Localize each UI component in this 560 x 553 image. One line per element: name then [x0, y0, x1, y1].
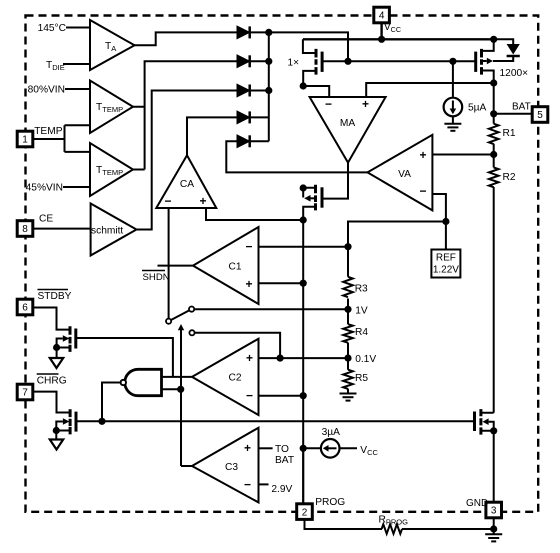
comparator C3 — [192, 428, 259, 503]
ground at R5 — [340, 394, 357, 401]
junction M5 source bulk — [53, 427, 60, 434]
junction diode bus row3 — [265, 87, 272, 94]
resistor R2 — [489, 155, 499, 413]
transistor M4 STDBY NMOS — [57, 326, 76, 358]
svg-text:4: 4 — [379, 11, 385, 22]
wire 145C input stub — [66, 27, 90, 29]
overline CHRG — [37, 373, 59, 375]
wire schmitt output to diode D3 — [137, 91, 238, 230]
wire main PROG vertical line — [302, 220, 304, 504]
svg-text:CE: CE — [39, 214, 53, 225]
svg-text:−: − — [325, 97, 332, 111]
wire gate rail — [322, 60, 476, 62]
svg-text:REF: REF — [436, 253, 456, 264]
wire 45%VIN input stub — [63, 186, 90, 188]
wire switch lower contact to C2 plus — [195, 333, 281, 358]
svg-text:GND: GND — [466, 498, 488, 509]
ground triangle at M5 — [50, 440, 63, 450]
junction NAND output — [98, 418, 105, 425]
svg-text:BAT: BAT — [275, 455, 294, 466]
svg-text:1V: 1V — [355, 305, 368, 316]
wire C3 output — [181, 465, 192, 467]
junction GND RPROG — [490, 525, 497, 532]
NAND gate — [121, 369, 162, 395]
transistor M6 NMOS bottom right — [475, 409, 494, 435]
wire 1V tap to switch upper contact — [194, 308, 348, 310]
svg-text:CA: CA — [180, 179, 194, 190]
wire VA minus input to REF — [432, 194, 446, 250]
svg-text:SHDN: SHDN — [143, 272, 170, 283]
junction CA+ — [300, 216, 307, 223]
svg-text:C2: C2 — [228, 373, 241, 384]
wire C3 minus input 2.9V — [259, 483, 269, 485]
svg-text:1: 1 — [22, 135, 28, 146]
svg-text:BAT: BAT — [512, 102, 531, 113]
svg-text:PROG: PROG — [315, 497, 345, 508]
wire VA plus input to R1 R2 node — [432, 154, 493, 156]
svg-text:CHRG: CHRG — [37, 376, 67, 387]
svg-text:VA: VA — [398, 169, 411, 180]
wire CA output to diode D4 — [187, 117, 238, 155]
comparator TTEMP lower — [90, 143, 133, 196]
transistor M1 1x PMOS — [303, 39, 322, 86]
svg-text:1.22V: 1.22V — [433, 265, 459, 276]
svg-text:5µA: 5µA — [468, 103, 487, 114]
svg-text:+: + — [246, 351, 253, 365]
wire C2 output to NAND input — [162, 376, 193, 378]
transistor M5 CHRG NMOS — [56, 409, 76, 439]
svg-text:0.1V: 0.1V — [355, 354, 376, 365]
schmitt trigger — [91, 204, 137, 256]
svg-text:2: 2 — [302, 507, 308, 518]
wire VA output to diode D5 — [226, 141, 367, 172]
junction 3uA — [300, 445, 307, 452]
svg-text:3µA: 3µA — [322, 427, 341, 438]
svg-text:+: + — [246, 277, 253, 291]
resistor R1 — [489, 124, 499, 155]
svg-text:2.9V: 2.9V — [271, 484, 292, 495]
wire BAT line R1 R2 chain — [493, 83, 495, 124]
junction MA- on PROG line — [300, 82, 307, 89]
svg-text:MA: MA — [340, 118, 355, 129]
svg-text:TO: TO — [275, 444, 289, 455]
wire 80%VIN input stub — [65, 88, 90, 90]
wire TTEMP outputs to diode D2 — [133, 61, 238, 169]
wire CA plus input — [206, 208, 303, 220]
body diode at M2 — [493, 39, 520, 61]
wire REF node to R3 top — [348, 222, 446, 277]
svg-text:6: 6 — [22, 303, 28, 314]
wire CE pin 8 to schmitt — [33, 228, 91, 230]
wire C2 plus input to 0.1V tap — [259, 357, 349, 359]
overline SHDN — [142, 270, 165, 272]
wire diode D1 cathode row to gate rail — [269, 32, 348, 61]
svg-text:TEMP: TEMP — [34, 126, 63, 137]
junction M3 drain — [300, 184, 307, 191]
comparator TA — [90, 20, 135, 70]
wire C1 plus input — [259, 282, 304, 284]
pin 5 box — [532, 107, 548, 123]
svg-text:+: + — [244, 441, 251, 455]
wire STDBY gate line from C2 output — [76, 338, 173, 377]
junction switch line C2+ — [277, 355, 284, 362]
junction C2- — [300, 392, 307, 399]
junction VA- REF — [442, 218, 449, 225]
wire TA output to diode D1 — [135, 32, 238, 45]
svg-text:schmitt: schmitt — [91, 226, 123, 237]
op-amp MA — [310, 97, 386, 163]
pin 1 box — [17, 131, 33, 147]
svg-text:80%VIN: 80%VIN — [28, 85, 65, 96]
pin 3 box — [486, 502, 502, 518]
amplifier CA — [156, 155, 216, 208]
svg-text:C3: C3 — [225, 462, 238, 473]
wire MA plus input from M2 source — [366, 83, 494, 97]
wire NAND lower input — [162, 388, 181, 390]
svg-text:3: 3 — [491, 506, 497, 517]
pin 7 wire to M5 — [33, 392, 70, 413]
svg-text:7: 7 — [22, 388, 28, 399]
op-amp VA — [368, 135, 433, 211]
wire CA minus input down to switch pole — [168, 208, 170, 319]
wire MA output to M3 gate — [323, 163, 348, 199]
svg-text:STDBY: STDBY — [38, 291, 72, 302]
wire M6 source to GND pin — [493, 431, 495, 503]
REF 1.22V box — [431, 250, 460, 278]
svg-text:+: + — [362, 97, 369, 111]
svg-text:−: − — [246, 389, 253, 403]
wire C1 output SHDN — [158, 265, 194, 267]
comparator TTEMP upper — [90, 81, 133, 134]
diode D1 — [238, 26, 269, 38]
wire TEMP pin 1 to TTEMP fork — [33, 125, 90, 152]
current source 3uA — [303, 439, 357, 458]
svg-text:−: − — [246, 240, 253, 254]
svg-text:R5: R5 — [355, 373, 368, 384]
wire long CHRG gate line — [78, 420, 475, 422]
svg-text:+: + — [200, 194, 207, 208]
junction VCC M2 drain — [490, 36, 497, 43]
resistor RPROG — [305, 520, 494, 534]
diode D3 — [238, 85, 269, 97]
switch SPDT — [166, 307, 195, 336]
resistor R3 — [343, 277, 353, 310]
junction VCC pin4 — [378, 36, 385, 43]
junction 1V tap — [344, 306, 351, 313]
wire C3 plus input TO BAT — [259, 447, 273, 449]
junction gate rail feedback — [344, 58, 351, 65]
diode D4 — [238, 111, 269, 123]
resistor R5 — [343, 358, 353, 393]
junction C1- R3 — [344, 243, 351, 250]
polarity marks — [165, 97, 427, 492]
junction gate rail 5uA — [449, 58, 456, 65]
wire BAT to pin 5 — [494, 113, 533, 115]
wire TDIE input stub — [63, 63, 90, 65]
svg-text:−: − — [244, 478, 251, 492]
junction R1 R2 VA+ — [490, 151, 497, 158]
svg-text:45%VIN: 45%VIN — [26, 183, 63, 194]
current source 5uA — [444, 61, 463, 123]
pin 8 box — [17, 221, 33, 237]
svg-text:145°C: 145°C — [38, 23, 66, 34]
pin 7 box — [17, 384, 33, 400]
svg-text:−: − — [165, 194, 172, 208]
ground at 5uA — [444, 124, 461, 131]
wire MA minus input — [303, 86, 329, 97]
svg-text:1200×: 1200× — [500, 68, 529, 79]
svg-text:C1: C1 — [228, 262, 241, 273]
svg-text:R4: R4 — [355, 327, 368, 338]
junction diode bus row2 — [265, 58, 272, 65]
svg-text:8: 8 — [22, 224, 28, 235]
wire diode common bus — [268, 32, 270, 141]
ground at GND pin — [485, 534, 502, 541]
junction 0.1V tap — [344, 355, 351, 362]
wire C2 minus input — [259, 395, 304, 397]
wire NAND output to CHRG gate line — [102, 383, 120, 422]
diode D2 — [238, 55, 269, 67]
svg-text:+: + — [420, 148, 427, 162]
ground triangle at M4 — [50, 358, 63, 368]
wire PROG pin down — [302, 448, 304, 504]
junction M6 source — [490, 427, 497, 434]
junction M2 source MA+ — [490, 79, 497, 86]
svg-text:5: 5 — [537, 110, 543, 121]
wire switch control from C3 output — [180, 330, 182, 466]
svg-text:R1: R1 — [503, 128, 516, 139]
junction M4 source bulk — [53, 344, 60, 351]
wire GND pin to ground — [493, 517, 495, 534]
svg-text:−: − — [420, 184, 427, 198]
pin 6 box — [17, 299, 33, 315]
transistor M2 1200x PMOS — [476, 39, 494, 83]
transistor M3 mirror PMOS — [303, 185, 322, 220]
junction C1+ — [300, 280, 307, 287]
diode D5 — [238, 135, 269, 147]
resistor R4 — [343, 309, 353, 358]
pin 6 wire to M4 — [33, 308, 70, 330]
pin 2 box — [297, 504, 313, 520]
comparator C2 — [192, 339, 259, 415]
svg-text:R2: R2 — [503, 172, 516, 183]
comparator C1 — [193, 227, 259, 304]
wire C1 minus input — [259, 246, 349, 248]
svg-text:R3: R3 — [355, 284, 368, 295]
overline STDBY — [38, 289, 69, 291]
junction NAND input2 — [177, 386, 184, 393]
svg-text:1×: 1× — [288, 58, 300, 69]
wire VCC pin 4 drop and rail — [303, 23, 494, 40]
pin 4 box — [374, 7, 390, 23]
junction diode bus row1 — [265, 29, 272, 36]
junction BAT node — [490, 110, 497, 117]
